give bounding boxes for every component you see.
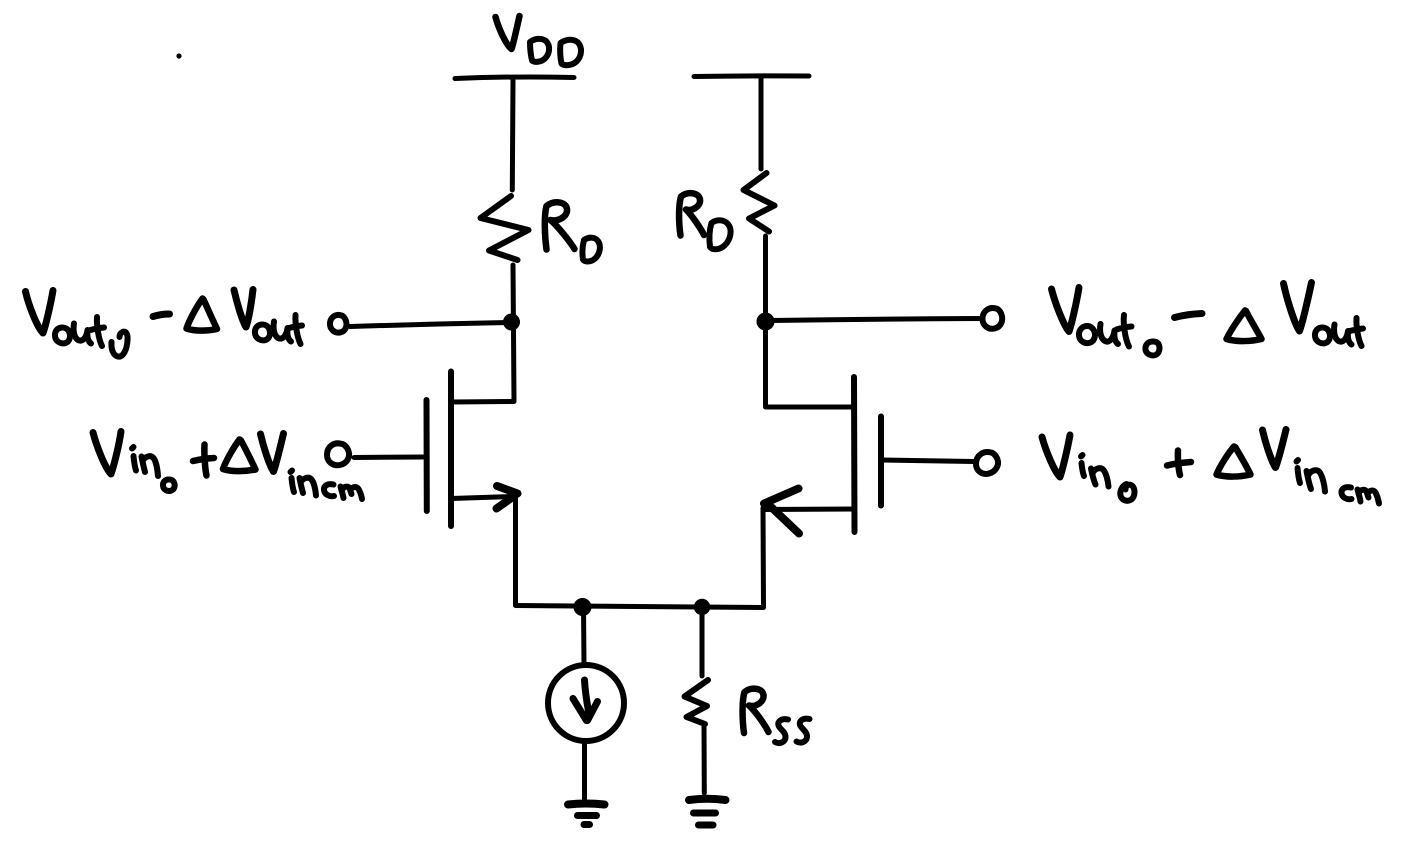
- wire: VDD rail to RD right: [759, 78, 764, 169]
- wire: tail to current source: [581, 607, 587, 664]
- wire: left output: [350, 323, 508, 327]
- NMOS M2 source stub: [763, 507, 854, 513]
- NMOS M2 drain stub: [766, 405, 855, 410]
- NMOS M1 source arrow: [497, 486, 518, 509]
- VDD supply rail right: [694, 73, 809, 79]
- wire: left gate input: [354, 455, 423, 461]
- label right input: Vin0 + dVincm: [1042, 430, 1379, 504]
- terminal: right output: [982, 308, 1002, 329]
- terminal: left input: [327, 443, 349, 465]
- wire: right output: [771, 319, 979, 321]
- stray ink dot: [176, 53, 181, 58]
- terminal: left output: [330, 315, 347, 333]
- wire: RD left to drain M1: [513, 265, 514, 400]
- label RSS: [743, 689, 810, 743]
- wire: RD right to drain M2: [763, 236, 768, 405]
- NMOS M2 source arrow: [764, 489, 799, 534]
- NMOS M2 channel bar: [851, 377, 858, 532]
- wire: M1 source down to tail: [513, 497, 518, 605]
- node: tail junction left: [574, 598, 592, 616]
- VDD supply rail left: [455, 77, 574, 79]
- label right output: Vout0 - dVout: [1052, 283, 1364, 356]
- wire: RSS to ground: [702, 726, 707, 793]
- wire: M2 source down to tail: [761, 508, 767, 606]
- label VDD: [496, 16, 582, 65]
- current source ISS circle: [548, 665, 624, 741]
- terminal: right input: [976, 452, 998, 474]
- NMOS M1 source stub: [451, 497, 514, 499]
- wire: right gate input: [881, 460, 974, 462]
- label RD left: [545, 202, 600, 261]
- ground symbol right: [689, 799, 726, 800]
- NMOS M1 gate bar: [424, 400, 430, 511]
- resistor RD left: [481, 196, 529, 260]
- node: left output junction: [503, 314, 520, 331]
- node: right output junction: [757, 313, 775, 331]
- current source ISS arrow: [585, 680, 589, 711]
- resistor RSS: [685, 680, 709, 724]
- NMOS M1 drain stub: [451, 399, 514, 405]
- wire: current source to ground: [582, 742, 587, 800]
- wire: tail to RSS: [700, 607, 705, 676]
- ground symbol left: [568, 804, 605, 805]
- tail rail wire: [516, 606, 764, 608]
- wire: VDD rail to RD left: [510, 80, 516, 190]
- resistor RD right: [744, 173, 775, 232]
- NMOS M1 channel bar: [448, 372, 454, 527]
- label left output: Vout0 - dVout: [26, 290, 303, 357]
- node: tail junction right: [694, 599, 710, 615]
- label RD right: [679, 193, 731, 249]
- NMOS M2 gate bar: [878, 417, 884, 506]
- label left input: Vin0 + dVincm: [93, 432, 362, 500]
